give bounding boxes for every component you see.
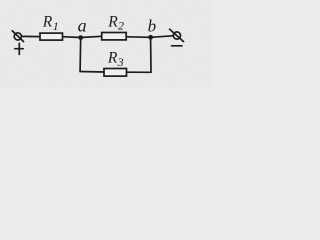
resistor R1	[40, 33, 63, 40]
resistor R2	[102, 33, 127, 40]
resistor R3	[104, 69, 127, 77]
terminal T1 (left, +)	[14, 33, 21, 40]
wire R1 to node a	[63, 36, 81, 39]
terminal T2 (right, -)	[173, 32, 180, 39]
wire R2 to node b	[126, 36, 150, 39]
wire bottom left to R3	[80, 71, 104, 74]
svg-text:a: a	[78, 16, 87, 36]
label R3	[107, 50, 124, 69]
label R1	[42, 14, 59, 33]
label R2	[107, 13, 124, 32]
wire node a to R2	[81, 36, 102, 37]
svg-text:R: R	[42, 14, 53, 31]
plus sign	[15, 48, 23, 50]
svg-text:R: R	[107, 13, 118, 30]
svg-text:1: 1	[53, 19, 59, 33]
node b	[148, 35, 153, 40]
wire R3 to bottom right corner	[127, 71, 152, 73]
wire node a down	[79, 38, 82, 72]
svg-text:R: R	[107, 50, 118, 67]
wire up to node b	[150, 40, 152, 73]
paper background	[0, 0, 212, 88]
svg-text:b: b	[148, 17, 157, 36]
svg-text:3: 3	[117, 55, 124, 69]
wire node b to T2	[151, 36, 173, 38]
minus sign	[172, 45, 183, 47]
wire T1 to R1	[22, 35, 40, 37]
node a	[78, 35, 83, 40]
svg-text:2: 2	[118, 18, 124, 32]
